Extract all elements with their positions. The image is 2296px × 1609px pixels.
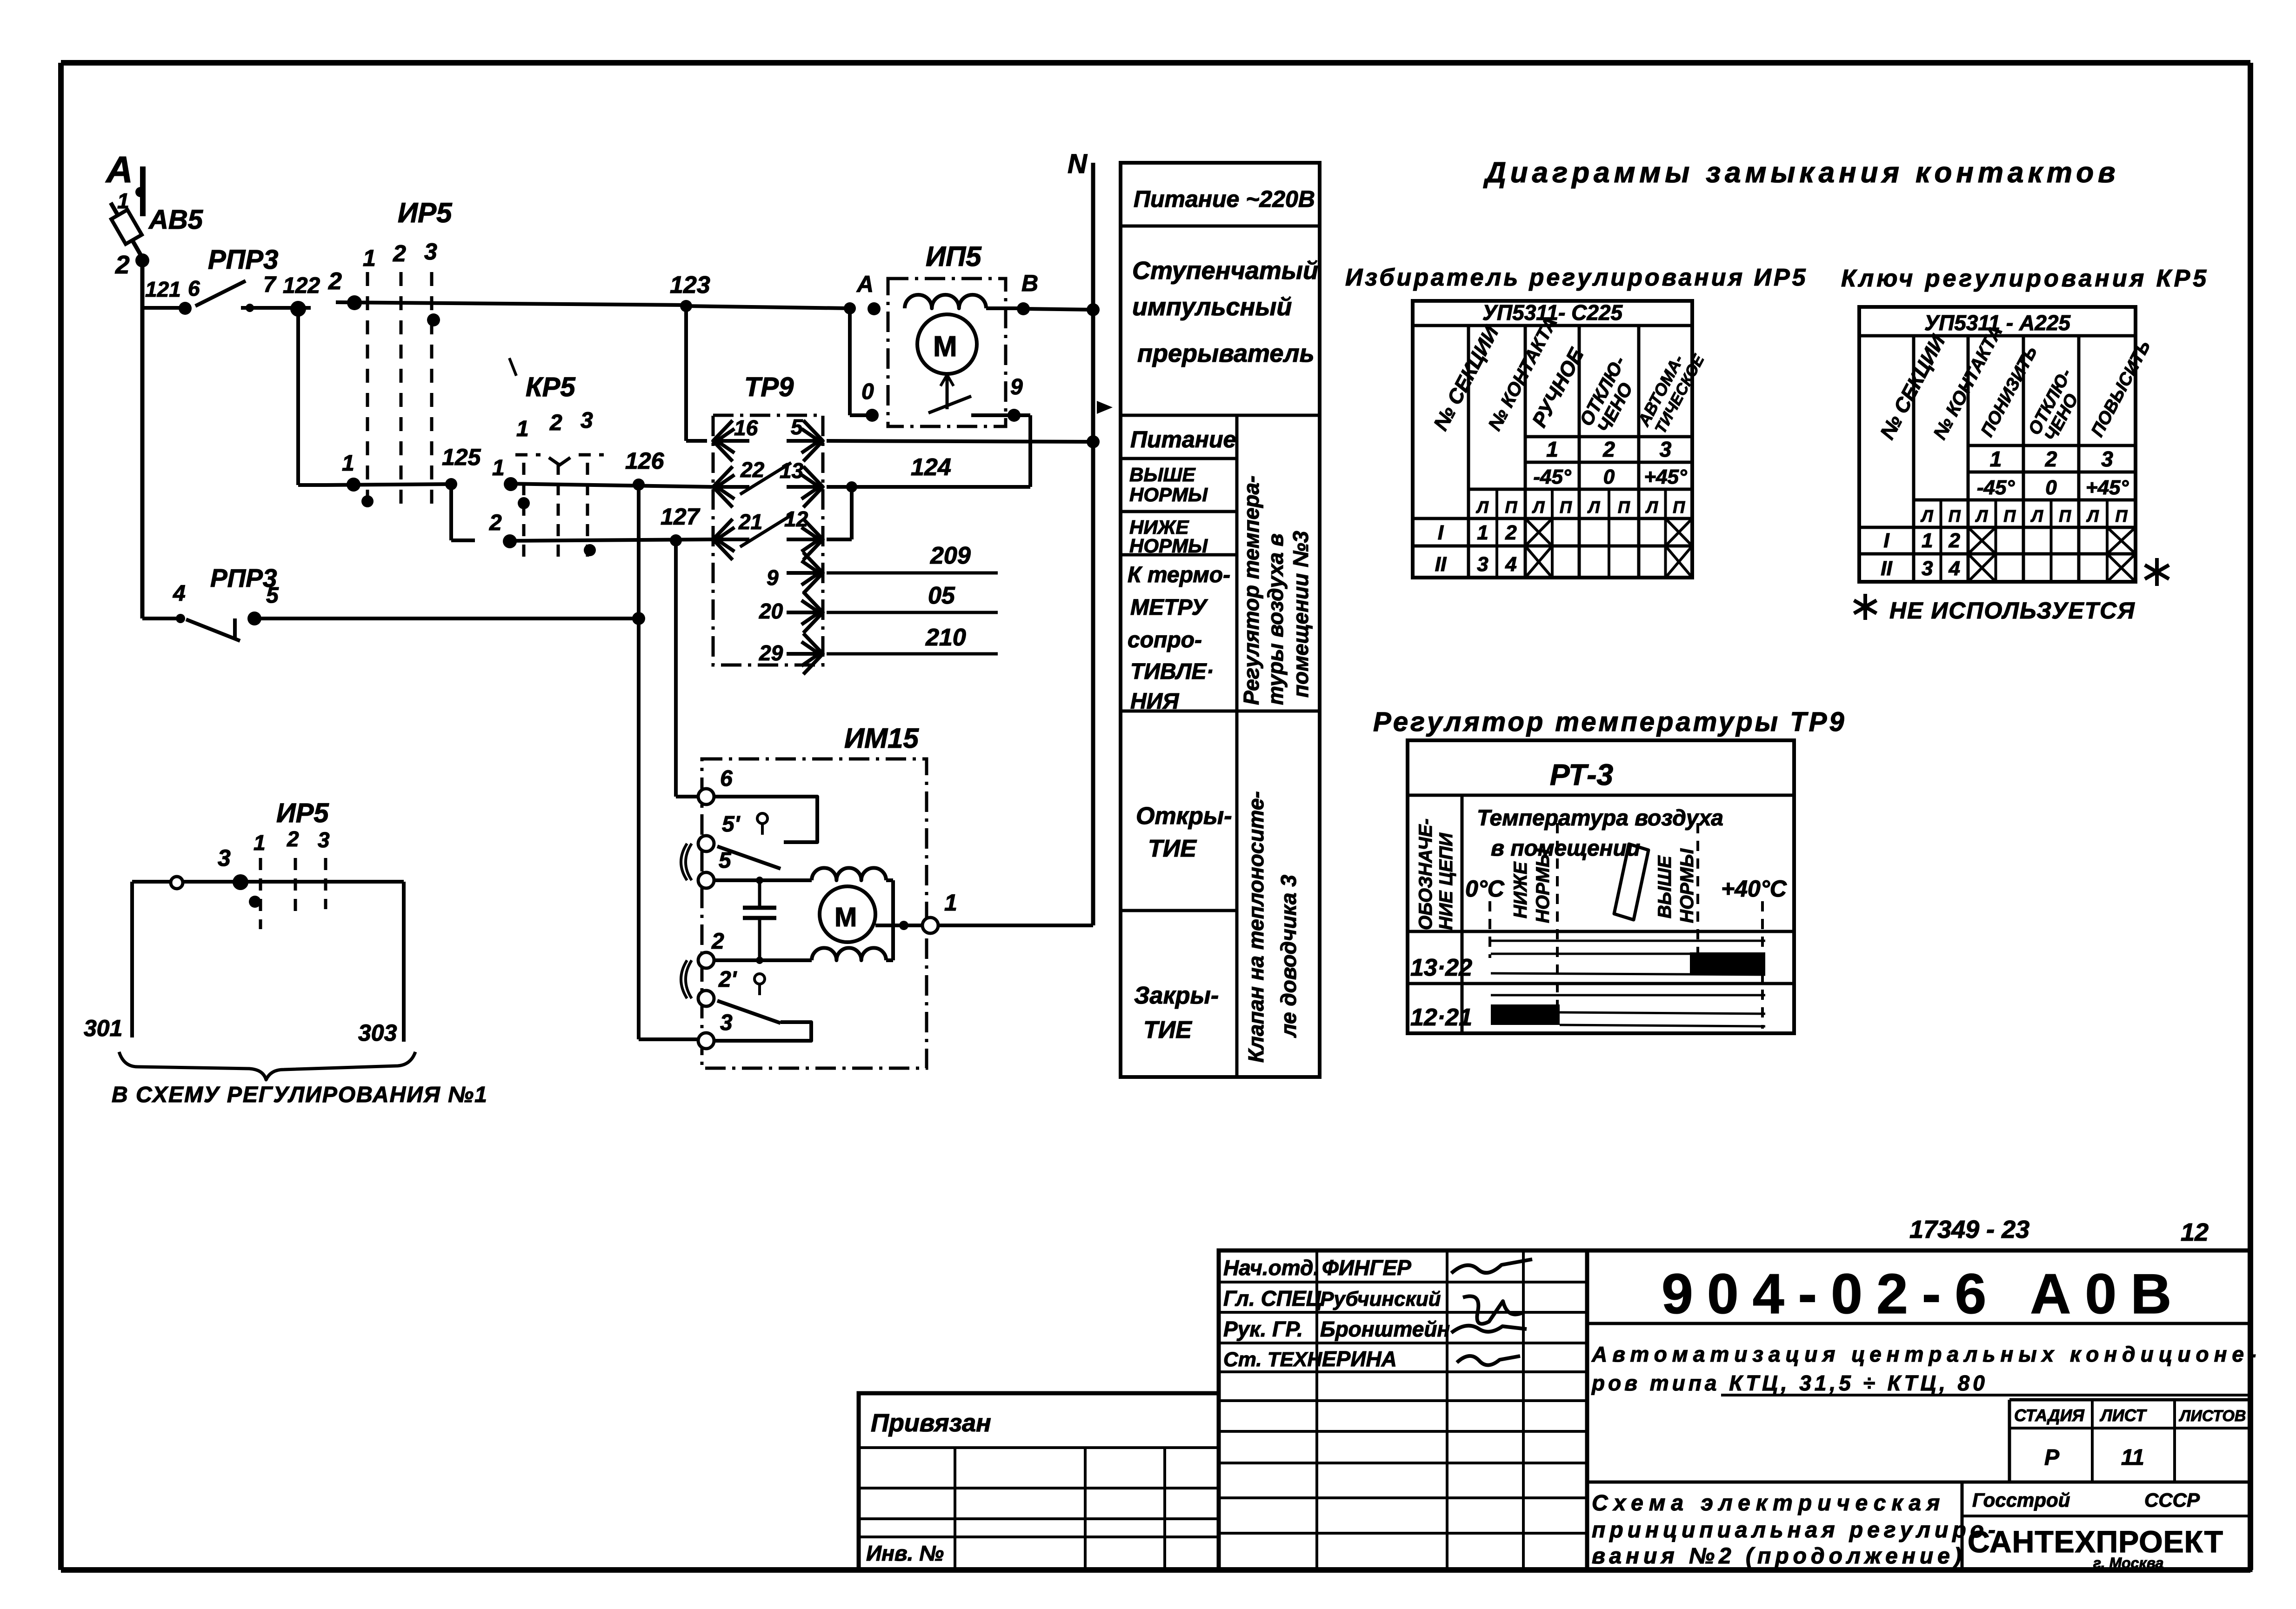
svg-text:ВЫШЕ: ВЫШЕ	[1129, 464, 1196, 485]
svg-text:904-02-6 А0В: 904-02-6 А0В	[1662, 1262, 2185, 1325]
svg-text:Температура воздуха: Температура воздуха	[1477, 806, 1723, 831]
svg-text:Л: Л	[1645, 498, 1658, 517]
svg-text:П: П	[1673, 498, 1685, 517]
svg-text:ТИВЛЕ·: ТИВЛЕ·	[1130, 659, 1214, 684]
svg-text:Гл. СПЕЦ: Гл. СПЕЦ	[1223, 1286, 1322, 1310]
svg-text:туры воздуха в: туры воздуха в	[1263, 533, 1288, 705]
svg-text:1: 1	[254, 831, 266, 855]
svg-text:СТАДИЯ: СТАДИЯ	[2014, 1406, 2084, 1425]
svg-text:Избиратель регулирования ИР5: Избиратель регулирования ИР5	[1345, 264, 1808, 291]
svg-text:0: 0	[1603, 465, 1615, 488]
svg-text:20: 20	[759, 599, 783, 623]
svg-text:В: В	[1021, 270, 1038, 296]
svg-text:3: 3	[720, 1011, 733, 1035]
svg-text:ТР9: ТР9	[744, 372, 794, 402]
svg-text:П: П	[2003, 506, 2016, 525]
svg-text:Л: Л	[1975, 506, 1988, 525]
svg-text:2: 2	[115, 250, 130, 279]
svg-text:А: А	[856, 271, 874, 297]
svg-text:Закры-: Закры-	[1134, 982, 1219, 1009]
svg-text:ров типа КТЦ, 31,5 ÷ КТЦ, 80: ров типа КТЦ, 31,5 ÷ КТЦ, 80	[1591, 1371, 1988, 1395]
svg-text:вания №2 (продолжение): вания №2 (продолжение)	[1592, 1544, 1966, 1569]
svg-text:3: 3	[218, 845, 231, 871]
svg-text:4: 4	[1949, 557, 1960, 580]
svg-text:Ступенчатый: Ступенчатый	[1132, 257, 1318, 285]
svg-text:127: 127	[661, 504, 701, 530]
svg-text:ТИЕ: ТИЕ	[1143, 1017, 1192, 1044]
svg-text:2': 2'	[718, 967, 737, 992]
svg-text:К термо-: К термо-	[1128, 563, 1230, 587]
svg-text:сопро-: сопро-	[1128, 628, 1202, 652]
svg-text:ФИНГЕР: ФИНГЕР	[1322, 1256, 1411, 1280]
svg-text:2: 2	[549, 411, 562, 435]
svg-text:2: 2	[1602, 437, 1615, 461]
svg-text:РПР3: РПР3	[208, 245, 278, 275]
svg-text:Л: Л	[2030, 506, 2043, 525]
svg-text:5': 5'	[722, 812, 741, 837]
svg-text:НИЯ: НИЯ	[1130, 689, 1179, 714]
svg-text:0: 0	[2045, 476, 2057, 499]
svg-text:помещении №3: помещении №3	[1288, 531, 1313, 698]
svg-text:ИР5: ИР5	[276, 798, 329, 828]
svg-text:2: 2	[1949, 529, 1961, 552]
svg-text:принципиальная регулиро-: принципиальная регулиро-	[1592, 1518, 2000, 1543]
svg-text:6: 6	[720, 766, 733, 791]
svg-text:П: П	[1949, 506, 1961, 525]
svg-text:Клапан на теплоносите-: Клапан на теплоносите-	[1244, 791, 1268, 1063]
svg-text:Бронштейн: Бронштейн	[1320, 1317, 1450, 1341]
svg-text:4: 4	[173, 581, 186, 606]
svg-text:РТ-3: РТ-3	[1550, 758, 1613, 791]
svg-text:ЛИСТОВ: ЛИСТОВ	[2178, 1407, 2246, 1425]
svg-text:П: П	[1560, 498, 1572, 517]
svg-text:ИМ15: ИМ15	[844, 723, 920, 754]
svg-text:124: 124	[911, 454, 951, 481]
svg-text:НИЕ ЦЕПИ: НИЕ ЦЕПИ	[1436, 832, 1456, 930]
svg-text:Рубчинский: Рубчинский	[1320, 1288, 1441, 1310]
svg-text:Л: Л	[1532, 498, 1545, 517]
svg-text:4: 4	[1505, 553, 1516, 576]
svg-text:САНТЕХПРОЕКТ: САНТЕХПРОЕКТ	[1968, 1524, 2223, 1559]
svg-text:29: 29	[759, 641, 783, 665]
svg-text:1: 1	[1990, 447, 2002, 471]
svg-text:12·21: 12·21	[1410, 1004, 1472, 1031]
svg-text:17349 - 23: 17349 - 23	[1909, 1216, 2029, 1243]
svg-text:21: 21	[738, 510, 762, 534]
svg-text:11: 11	[2121, 1445, 2144, 1470]
svg-text:ТИЕ: ТИЕ	[1148, 835, 1197, 862]
svg-text:В СХЕМУ РЕГУЛИРОВАНИЯ №1: В СХЕМУ РЕГУЛИРОВАНИЯ №1	[112, 1083, 488, 1107]
svg-text:3: 3	[424, 239, 437, 265]
svg-text:+45°: +45°	[2086, 476, 2129, 499]
svg-text:2: 2	[328, 268, 342, 295]
svg-text:Л: Л	[1587, 498, 1601, 517]
svg-text:в помещении: в помещении	[1491, 836, 1640, 861]
svg-text:Л: Л	[2086, 506, 2099, 525]
svg-text:прерыватель: прерыватель	[1137, 339, 1315, 367]
svg-text:II: II	[1881, 557, 1892, 580]
svg-text:I: I	[1883, 529, 1889, 552]
svg-text:3: 3	[2101, 447, 2113, 471]
svg-text:ИП5: ИП5	[926, 241, 982, 272]
svg-text:Диаграммы замыкания контакто: Диаграммы замыкания контактов	[1483, 157, 2120, 189]
svg-text:126: 126	[625, 448, 665, 474]
svg-text:6: 6	[188, 276, 200, 300]
svg-text:3: 3	[1660, 437, 1672, 461]
svg-text:ИР5: ИР5	[398, 197, 453, 228]
svg-text:Госстрой: Госстрой	[1972, 1489, 2070, 1511]
svg-text:16: 16	[734, 416, 758, 440]
svg-text:2: 2	[1505, 521, 1517, 544]
svg-text:Привязан: Привязан	[871, 1409, 991, 1437]
svg-text:НОРМЫ: НОРМЫ	[1129, 484, 1208, 505]
svg-text:123: 123	[670, 272, 710, 299]
svg-text:НИЖЕ: НИЖЕ	[1510, 861, 1531, 918]
svg-text:2: 2	[287, 827, 299, 851]
svg-text:2: 2	[489, 511, 502, 535]
svg-text:9: 9	[1010, 375, 1023, 399]
svg-text:-45°: -45°	[1977, 476, 2015, 499]
svg-text:12: 12	[2181, 1218, 2209, 1246]
svg-text:Автоматизация центральных ко: Автоматизация центральных кондиционе-	[1591, 1342, 2261, 1366]
svg-text:Инв. №: Инв. №	[866, 1541, 944, 1565]
svg-text:ОБОЗНАЧЕ-: ОБОЗНАЧЕ-	[1415, 818, 1436, 930]
svg-text:2: 2	[711, 929, 724, 954]
svg-text:АВ5: АВ5	[148, 205, 203, 235]
svg-text:1: 1	[342, 451, 354, 476]
svg-text:II: II	[1435, 553, 1447, 576]
svg-text:2: 2	[2045, 447, 2057, 471]
svg-text:1: 1	[1922, 529, 1933, 552]
svg-text:-45°: -45°	[1533, 465, 1571, 488]
svg-text:2: 2	[393, 240, 406, 266]
svg-text:303: 303	[358, 1020, 397, 1046]
svg-text:3: 3	[318, 828, 330, 852]
svg-text:Откры-: Откры-	[1136, 803, 1232, 830]
svg-text:7: 7	[263, 273, 277, 297]
svg-text:импульсный: импульсный	[1132, 293, 1292, 321]
svg-text:А: А	[105, 149, 133, 190]
svg-text:12: 12	[784, 507, 808, 531]
svg-text:П: П	[1505, 498, 1518, 517]
svg-text:9: 9	[767, 565, 779, 590]
svg-text:0°С: 0°С	[1465, 876, 1505, 902]
svg-text:ВЫШЕ: ВЫШЕ	[1655, 855, 1675, 918]
svg-text:1: 1	[492, 456, 505, 480]
svg-text:ЕРИНА: ЕРИНА	[1322, 1347, 1397, 1371]
svg-text:1: 1	[1546, 437, 1558, 461]
svg-text:210: 210	[925, 624, 966, 651]
svg-text:N: N	[1068, 149, 1088, 179]
svg-text:301: 301	[84, 1015, 122, 1041]
svg-text:3: 3	[581, 408, 593, 433]
svg-text:0: 0	[861, 379, 874, 404]
svg-text:М: М	[933, 331, 957, 363]
svg-text:НОРМЫ: НОРМЫ	[1677, 848, 1697, 923]
svg-text:НЕ ИСПОЛЬЗУЕТСЯ: НЕ ИСПОЛЬЗУЕТСЯ	[1889, 598, 2136, 624]
svg-text:Ст. ТЕХН.: Ст. ТЕХН.	[1223, 1348, 1328, 1371]
svg-text:5: 5	[791, 415, 803, 439]
svg-text:22: 22	[740, 458, 765, 482]
svg-text:Питание: Питание	[1130, 426, 1236, 452]
svg-text:Л: Л	[1475, 498, 1489, 517]
svg-text:1: 1	[944, 890, 957, 916]
svg-text:209: 209	[930, 542, 971, 569]
svg-text:Питание ~220В: Питание ~220В	[1134, 186, 1315, 212]
svg-text:I: I	[1438, 521, 1444, 544]
svg-text:Рук. ГР.: Рук. ГР.	[1223, 1317, 1303, 1341]
svg-text:Нач.отд.: Нач.отд.	[1223, 1256, 1319, 1280]
svg-text:П: П	[1618, 498, 1630, 517]
svg-text:1: 1	[516, 417, 529, 441]
svg-text:МЕТРУ: МЕТРУ	[1130, 595, 1208, 620]
svg-text:13: 13	[780, 459, 804, 483]
svg-text:Ключ регулирования КР5: Ключ регулирования КР5	[1841, 265, 2209, 292]
svg-text:Л: Л	[1920, 506, 1934, 525]
svg-text:3: 3	[1922, 557, 1933, 580]
svg-text:Регулятор темпера-: Регулятор темпера-	[1239, 476, 1263, 705]
svg-text:ЛИСТ: ЛИСТ	[2099, 1406, 2147, 1425]
svg-text:П: П	[2116, 506, 2128, 525]
svg-text:СССР: СССР	[2144, 1489, 2200, 1511]
svg-text:Р: Р	[2044, 1445, 2060, 1470]
svg-text:125: 125	[442, 444, 481, 470]
svg-text:3: 3	[1477, 553, 1488, 576]
svg-text:КР5: КР5	[526, 372, 575, 402]
svg-text:П: П	[2059, 506, 2071, 525]
svg-text:г. Москва: г. Москва	[2093, 1555, 2163, 1571]
svg-text:+45°: +45°	[1644, 465, 1687, 488]
svg-text:1: 1	[1477, 521, 1488, 544]
svg-text:122: 122	[283, 273, 320, 298]
svg-text:М: М	[834, 902, 857, 932]
svg-text:1: 1	[363, 245, 376, 271]
svg-text:НОРМЫ: НОРМЫ	[1129, 535, 1208, 557]
svg-text:13·22: 13·22	[1410, 954, 1472, 981]
svg-text:НОРМЫ: НОРМЫ	[1533, 848, 1553, 923]
svg-text:Регулятор температуры ТР9: Регулятор температуры ТР9	[1373, 707, 1847, 737]
svg-text:+40°С: +40°С	[1721, 876, 1787, 902]
svg-text:121: 121	[145, 277, 181, 301]
svg-text:Схема электрическая: Схема электрическая	[1592, 1491, 1945, 1516]
svg-text:5: 5	[266, 583, 279, 608]
svg-text:ле доводчика 3: ле доводчика 3	[1276, 875, 1301, 1038]
svg-text:05: 05	[928, 582, 955, 609]
